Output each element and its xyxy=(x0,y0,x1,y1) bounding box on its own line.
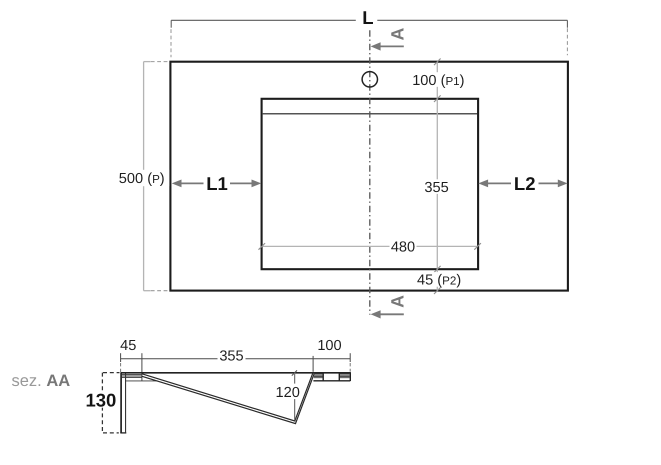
svg-text:L1: L1 xyxy=(206,173,228,194)
section dimension line 45/355/100 xyxy=(121,353,351,381)
basin bottom slope (double line) xyxy=(142,373,315,424)
left wall of profile xyxy=(120,373,126,433)
svg-text:A: A xyxy=(388,28,408,41)
label 500 (P) xyxy=(118,170,169,186)
dimension line 500 (P) xyxy=(144,62,151,291)
svg-text:L2: L2 xyxy=(514,173,536,194)
dimension L2 xyxy=(478,173,567,194)
extension dashes to corners xyxy=(151,28,568,290)
svg-text:120: 120 xyxy=(276,385,300,401)
section profile: top surface xyxy=(121,372,351,374)
vertical dimension chain line (100/355/45) xyxy=(436,62,438,291)
svg-text:A: A xyxy=(388,295,408,308)
tick marks xyxy=(259,59,481,295)
svg-text:355: 355 xyxy=(219,349,243,365)
svg-text:45: 45 xyxy=(120,338,136,354)
dimension L1 xyxy=(172,173,262,194)
label 100 (P1) xyxy=(412,72,466,87)
svg-text:45 (P2): 45 (P2) xyxy=(417,273,461,289)
section arrow A bottom xyxy=(371,295,408,319)
right ledge laminate stripes xyxy=(314,374,350,378)
label 45 (P2) xyxy=(417,272,465,287)
svg-text:480: 480 xyxy=(391,240,415,256)
svg-text:100 (P1): 100 (P1) xyxy=(412,73,464,89)
label 355 xyxy=(424,179,451,194)
label L xyxy=(356,10,378,27)
dimension line 480 xyxy=(262,245,477,247)
label 355 (section) xyxy=(218,348,246,362)
basin inner edge line xyxy=(263,113,477,115)
svg-text:sez. AA: sez. AA xyxy=(12,372,71,390)
svg-text:500 (P): 500 (P) xyxy=(119,171,165,187)
dimension line L xyxy=(171,20,567,27)
dimension 120 xyxy=(294,374,296,420)
svg-text:355: 355 xyxy=(424,180,448,196)
svg-text:L: L xyxy=(362,7,373,28)
faucet hole xyxy=(362,72,377,87)
centerline (section A-A axis) xyxy=(369,30,371,314)
dimension 130 (dashed) xyxy=(102,373,119,433)
basin opening rectangle xyxy=(262,99,479,269)
left ledge laminate stripes xyxy=(122,375,159,381)
label 480 xyxy=(390,239,417,254)
svg-text:100: 100 xyxy=(317,338,341,354)
countertop outline (plan view) xyxy=(170,62,568,291)
right ledge of profile xyxy=(313,372,350,381)
section arrow A top xyxy=(371,28,408,51)
svg-text:130: 130 xyxy=(85,389,116,410)
